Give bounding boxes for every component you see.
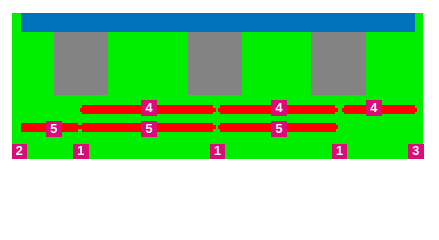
row4 segment A body — [82, 105, 213, 114]
label 5 segment B — [141, 121, 157, 137]
row5 segment B left tab — [80, 125, 82, 129]
blue header bar — [21, 13, 415, 32]
row4 segment C left tab — [342, 108, 344, 112]
row4 segment C right tab — [415, 108, 417, 112]
row5 segment A body — [21, 123, 78, 133]
row4 segment B left tab — [218, 108, 220, 112]
row4 segment C body — [344, 105, 416, 114]
row4 segment A right tab — [213, 108, 216, 112]
bottom label 1 (third) — [332, 144, 348, 159]
row5 segment A right tab — [78, 125, 80, 129]
bottom label 3 — [408, 144, 424, 159]
green page background — [12, 13, 423, 159]
row4 segment B body — [220, 105, 335, 114]
gray block 2 — [188, 32, 242, 95]
bottom label 1 (second) — [210, 144, 226, 159]
bottom label 1 (first) — [73, 144, 89, 159]
row5 segment C left tab — [218, 125, 220, 129]
label 4 segment B — [271, 100, 287, 116]
row5 segment B body — [82, 123, 213, 133]
gray block 3 — [311, 32, 366, 95]
row4 segment B right tab — [335, 108, 338, 112]
label 5 segment C — [271, 121, 287, 137]
gray block 1 — [54, 32, 108, 95]
label 4 segment C — [366, 100, 382, 116]
row4 segment A left tab — [80, 108, 82, 112]
label 5 segment A — [46, 121, 62, 137]
label 4 segment A — [141, 100, 157, 116]
bottom label 2 — [12, 144, 28, 159]
row5 segment B right tab — [213, 125, 216, 129]
row5 segment C right tab — [336, 125, 338, 129]
row5 segment C body — [220, 123, 336, 133]
